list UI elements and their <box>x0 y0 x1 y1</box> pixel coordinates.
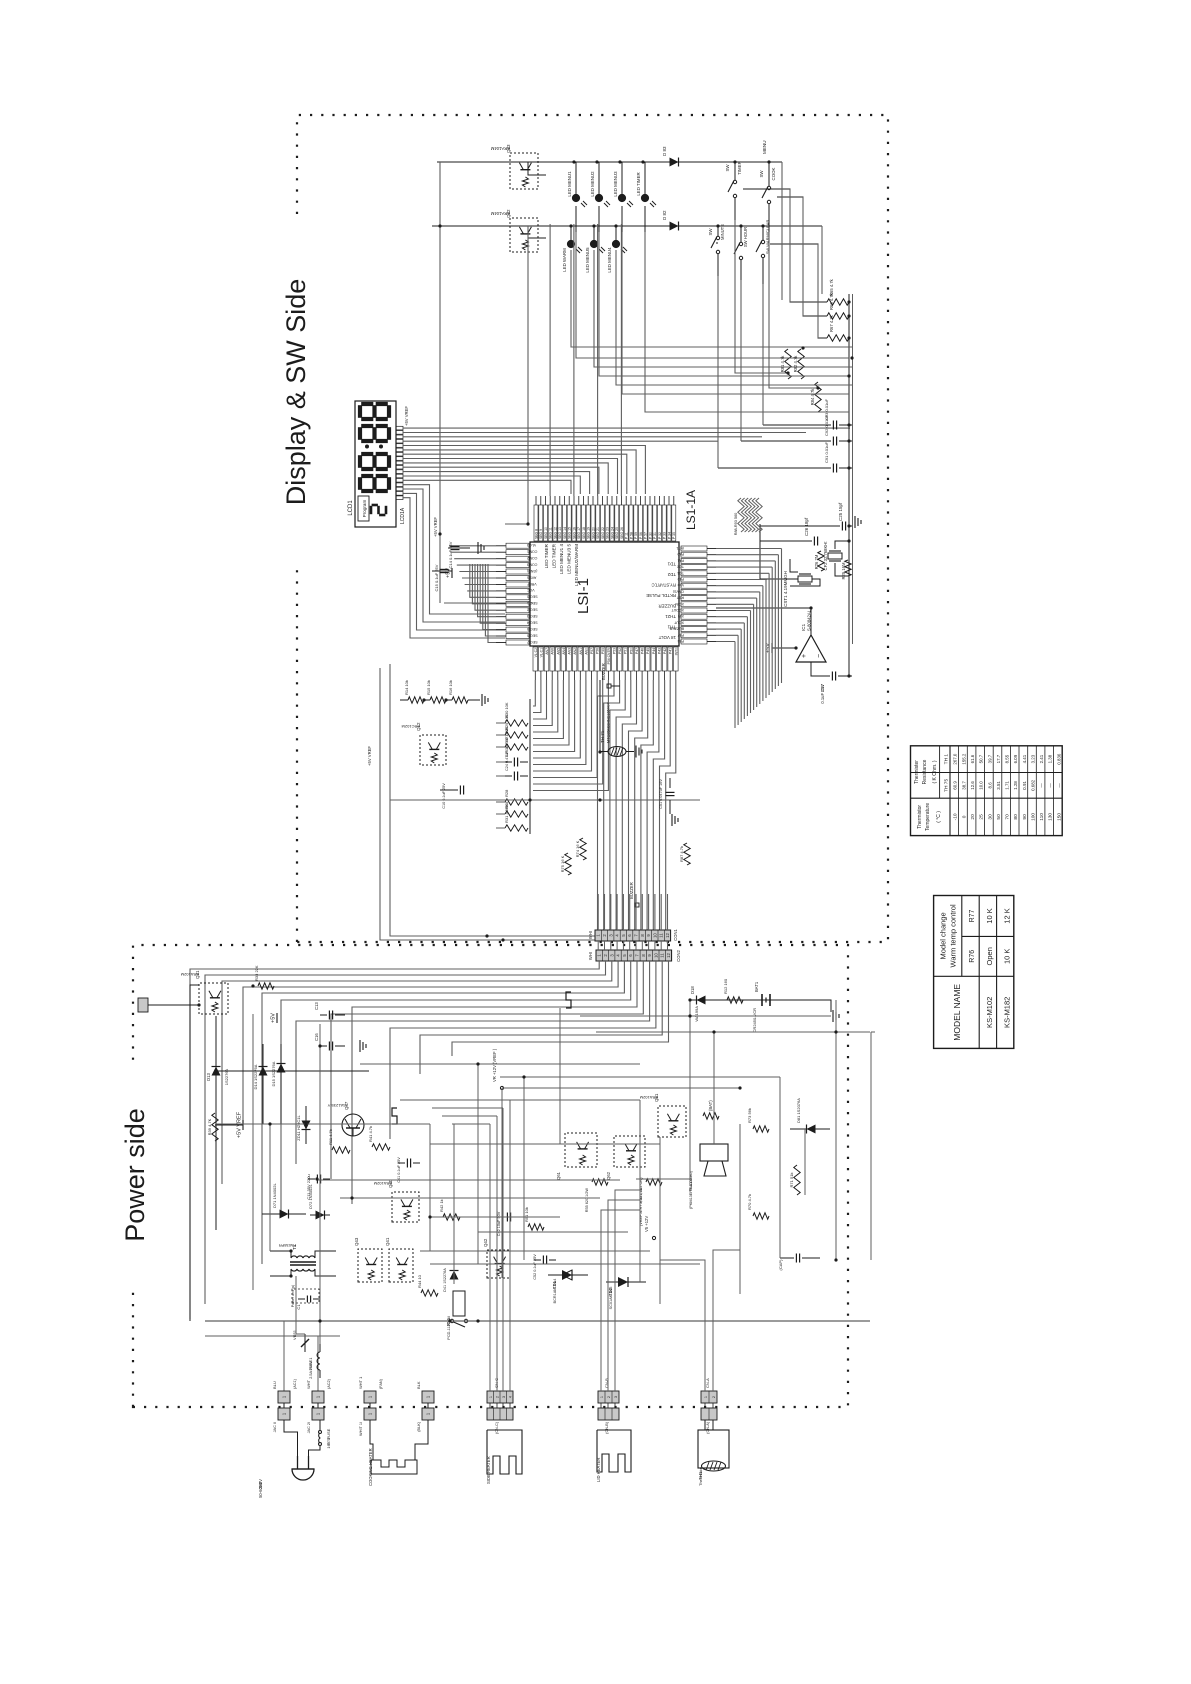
svg-text:SEG 6: SEG 6 <box>527 633 538 637</box>
capacitor C41 0.1uF 25V <box>398 1162 405 1164</box>
svg-text:SEG 20: SEG 20 <box>591 527 595 539</box>
svg-text:INT0: INT0 <box>674 648 678 655</box>
svg-text:80: 80 <box>1013 814 1019 820</box>
svg-text:TH 71: TH 71 <box>600 730 605 743</box>
LCD pin header 17 pins <box>396 496 403 500</box>
arrester VR51 <box>304 1334 306 1352</box>
svg-text:+5V VREF: +5V VREF <box>367 746 372 766</box>
svg-text:AN2: AN2 <box>573 648 577 655</box>
svg-text:C1: C1 <box>296 1304 301 1310</box>
svg-text:LED TIMER: LED TIMER <box>544 543 549 568</box>
svg-text:169°C: 169°C <box>326 1437 331 1448</box>
connector WHIT 1I <box>364 1408 376 1420</box>
svg-text:SEG 18: SEG 18 <box>582 527 586 539</box>
wire CN-A to thermistor divider <box>660 1260 705 1391</box>
svg-text:TD1: TD1 <box>667 562 676 567</box>
svg-text:(BLK): (BLK) <box>417 1421 421 1431</box>
LCD small digit <box>370 506 373 514</box>
capacitor C14 0.1uF 25V <box>448 547 470 549</box>
svg-text:AN5: AN5 <box>556 648 560 655</box>
svg-text:P37: P37 <box>678 633 684 637</box>
capacitor C26 18pF <box>760 540 812 542</box>
svg-text:BUZZER: BUZZER <box>658 604 676 609</box>
svg-text:2: 2 <box>496 1396 500 1398</box>
digital transistor Q51 KRA102M battery switch <box>658 1106 686 1137</box>
capacitor C92 0.01uF <box>741 440 831 442</box>
LSI bottom pin row (P36 P37 XOUT XIN XCOUT XCIN RST CNVss) <box>681 639 707 644</box>
svg-text:KS-M182: KS-M182 <box>1002 997 1011 1028</box>
LCD digit 3 <box>358 427 362 440</box>
svg-text:WHI: WHI <box>588 952 593 960</box>
LSI right pin row (SEG8-SEG26 P11 P58-P57) <box>534 505 538 541</box>
resistor R87 4.7K <box>684 843 690 865</box>
svg-text:SEG 4: SEG 4 <box>527 621 538 625</box>
LSI top pin row (SEG7-SEG0 VCC VREF AVSS COM3-COM0 VLC3) <box>506 640 529 645</box>
capacitor C13 <box>320 1014 327 1016</box>
digital transistor Q31 KRA102M <box>199 983 228 1014</box>
svg-text:6.09: 6.09 <box>1013 754 1018 763</box>
pulse waveform symbol 2 <box>566 992 571 1008</box>
wire power rail y871 <box>870 1032 872 1260</box>
LED LED MENU5 <box>593 226 595 244</box>
svg-text:SW HOUR: SW HOUR <box>743 227 748 247</box>
svg-text:3.51: 3.51 <box>996 781 1001 790</box>
svg-text:D 83: D 83 <box>662 146 667 156</box>
svg-text:VL C2: VL C2 <box>534 648 538 657</box>
resistor R11 4.7K <box>332 1147 350 1153</box>
resistor R66 4.7k <box>827 313 849 319</box>
svg-text:SEG 5: SEG 5 <box>527 627 538 631</box>
svg-text:COM2: COM2 <box>527 556 537 560</box>
wire transformer leads <box>270 1269 291 1276</box>
svg-text:R71 51k: R71 51k <box>789 1173 794 1188</box>
svg-text:R33 22K: R33 22K <box>254 965 259 981</box>
ground power ground rail <box>832 1010 834 1022</box>
ground C51 <box>669 808 671 814</box>
svg-text:R73 56k: R73 56k <box>747 1108 752 1123</box>
svg-text:12: 12 <box>666 953 671 958</box>
svg-text:155.2: 155.2 <box>961 753 966 765</box>
svg-text:P 56: P 56 <box>639 532 643 539</box>
ground for crystal block <box>849 525 852 527</box>
switch SW COOK <box>768 162 770 186</box>
svg-text:SEG 2: SEG 2 <box>527 608 538 612</box>
svg-text:P46: P46 <box>641 648 645 654</box>
LCD digit 2 <box>358 455 362 468</box>
LED LED MENU3 <box>621 162 623 198</box>
LED LED WARM <box>570 226 572 244</box>
svg-text:(CAP): (CAP) <box>778 1259 783 1271</box>
svg-text:C13: C13 <box>314 1002 319 1010</box>
svg-text:25: 25 <box>979 814 985 820</box>
svg-text:R14 10k: R14 10k <box>404 680 409 695</box>
digital transistor Q43 KRA102M <box>358 1249 382 1282</box>
svg-text:Temperature: Temperature <box>925 803 931 831</box>
resistor R51 10K <box>528 1224 544 1230</box>
resistor R81 4.7k <box>785 349 791 379</box>
svg-text:Warm temp control: Warm temp control <box>949 904 958 967</box>
svg-text:0.1uF 25V: 0.1uF 25V <box>820 684 825 704</box>
svg-text:SEG 26: SEG 26 <box>620 527 624 539</box>
svg-text:P 32: P 32 <box>658 532 662 539</box>
svg-text:4.41: 4.41 <box>1022 754 1027 763</box>
transistor Q77 2SA1235-Y <box>342 1114 364 1136</box>
resistor R6R <box>505 811 528 817</box>
wire +5V rail above crystal <box>759 524 761 579</box>
svg-text:130: 130 <box>1048 813 1054 821</box>
capacitor CAP power <box>780 1257 794 1259</box>
capacitor C25 0.47uF 16V <box>505 761 512 763</box>
svg-text:Open: Open <box>985 947 994 965</box>
diode D83 <box>670 158 679 167</box>
svg-text:P45: P45 <box>646 648 650 654</box>
svg-text:267.0: 267.0 <box>953 753 958 765</box>
svg-text:(FAN): (FAN) <box>379 1378 383 1389</box>
svg-text:3.23: 3.23 <box>1030 754 1035 763</box>
svg-text:+: + <box>801 654 808 658</box>
svg-text:( K Ohm. ): ( K Ohm. ) <box>932 760 938 783</box>
thyristor TD2 SC01AM A45 <box>606 1281 646 1283</box>
svg-text:TH 1: TH 1 <box>944 754 950 765</box>
svg-text:LED MENU2/WARM: LED MENU2/WARM <box>574 544 579 586</box>
thyristor TD1 BCR1AM-8 <box>548 1274 588 1276</box>
svg-text:SEG 7: SEG 7 <box>527 640 538 644</box>
diode D13 1S2276A <box>215 1016 217 1230</box>
svg-text:R70 4.7k: R70 4.7k <box>747 1194 752 1210</box>
svg-text:38.7: 38.7 <box>961 781 966 790</box>
svg-text:CNVss: CNVss <box>673 589 684 593</box>
resistor R65 4.7k <box>827 301 849 303</box>
wire power heavy mains vertical <box>205 1320 870 1322</box>
svg-text:P 11: P 11 <box>625 532 629 539</box>
wire battery net to Q51 <box>689 1000 691 1016</box>
svg-text:R44 10: R44 10 <box>417 1274 422 1288</box>
connector CON1 12-pin <box>595 930 671 941</box>
connector BLK <box>422 1391 434 1403</box>
relay RY1 PCD-112D1M <box>453 1291 465 1316</box>
wire bus SW nets to capacitor columns <box>717 276 719 468</box>
wire AC connector risers <box>283 1321 285 1391</box>
wire switch pulldown network <box>743 189 827 302</box>
svg-text:CR2450-VCR: CR2450-VCR <box>752 1008 757 1033</box>
power +5V left of LSI <box>451 568 453 578</box>
resistor R29 10K <box>505 732 528 738</box>
svg-text:LS1-1A: LS1-1A <box>684 490 698 530</box>
svg-text:P 58: P 58 <box>629 532 633 539</box>
svg-text:11: 11 <box>660 953 665 958</box>
resistor R67 4.7k <box>827 335 849 341</box>
LCD digit 4 <box>358 405 362 418</box>
svg-text:Power side: Power side <box>120 1108 150 1242</box>
svg-text:—: — <box>1048 783 1053 788</box>
wire power section top rail y190 <box>190 985 199 1321</box>
svg-text:R75 16 K: R75 16 K <box>560 855 565 872</box>
svg-text:3: 3 <box>614 1396 618 1398</box>
LCD digit 1 <box>358 477 362 490</box>
svg-text:AN6: AN6 <box>551 648 555 655</box>
wire TH71 feed <box>600 680 608 752</box>
svg-text:SEG 0: SEG 0 <box>527 595 538 599</box>
diode D71 1N4002L <box>262 1213 306 1215</box>
power +5V to op-amp <box>771 643 773 653</box>
resistor R74 16K <box>580 838 586 860</box>
svg-text:VR +12V (VREF ): VR +12V (VREF ) <box>492 1048 497 1082</box>
svg-text:P43: P43 <box>657 648 661 654</box>
wire ladder bottom bus <box>529 699 531 834</box>
wire LCD segment bus fanout <box>403 498 505 638</box>
svg-text:KRA102M: KRA102M <box>374 1181 392 1186</box>
svg-text:P 59: P 59 <box>634 532 638 539</box>
svg-text:C15 0.1uF 25V: C15 0.1uF 25V <box>434 564 439 591</box>
wire rail A lower extension <box>781 162 783 300</box>
svg-text:Q61: Q61 <box>556 1171 561 1180</box>
svg-text:IC1: IC1 <box>801 623 806 631</box>
svg-text:KRA104M: KRA104M <box>490 146 510 151</box>
svg-text:Power unit (p): Power unit (p) <box>291 1285 295 1307</box>
diode D72 1N4002L <box>310 1214 330 1216</box>
diode D14 1S2276A <box>262 1044 264 1124</box>
svg-text:1.71: 1.71 <box>1005 781 1010 790</box>
svg-text:SEG 12: SEG 12 <box>553 527 557 539</box>
svg-text:LED TIMER: LED TIMER <box>636 172 641 195</box>
svg-text:R67 4.7k: R67 4.7k <box>829 314 834 332</box>
svg-text:Thermistor: Thermistor <box>698 1466 703 1486</box>
svg-text:BLK: BLK <box>416 1381 421 1389</box>
wire AVSS net crossing chip <box>444 602 533 604</box>
capacitor C42 10uF 50V <box>498 1216 505 1218</box>
svg-text:MENU: MENU <box>762 140 767 154</box>
resistor R31 4.99K <box>505 825 528 831</box>
wire CON1-CON2 links <box>597 941 599 950</box>
svg-text:MODEL NAME: MODEL NAME <box>952 984 962 1041</box>
svg-text:Display & SW Side: Display & SW Side <box>281 279 311 506</box>
connector CN-A mate <box>701 1408 717 1420</box>
connector (BLK) <box>422 1408 434 1420</box>
svg-text:0.682: 0.682 <box>1030 779 1035 791</box>
display & SW side region dotted border <box>297 115 888 942</box>
svg-text:Q42: Q42 <box>483 1238 488 1247</box>
svg-text:C51 0.047uF 16V: C51 0.047uF 16V <box>659 779 663 809</box>
wire bus LSI upper left pins to analog section <box>533 680 535 706</box>
crystal CF2 32.768kHz <box>829 560 841 562</box>
wire analog long rail <box>390 799 700 801</box>
svg-text:WHT: WHT <box>306 1379 311 1389</box>
zener diode ZD11 HZ6C1L <box>305 1106 307 1144</box>
svg-text:LED MENU2: LED MENU2 <box>590 171 595 197</box>
resistor R70 4.7K <box>753 1213 769 1219</box>
svg-text:R82 4.7k: R82 4.7k <box>793 355 798 373</box>
resistor R12 160 <box>727 997 743 1003</box>
svg-text:-10: -10 <box>953 813 959 820</box>
resistor R25 16M <box>845 560 851 576</box>
svg-text:COM3: COM3 <box>527 562 537 566</box>
svg-text:BCR1AM-8 A4: BCR1AM-8 A4 <box>553 1279 557 1304</box>
svg-text:PA038PR: PA038PR <box>279 1243 296 1248</box>
capacitor C25 15pF <box>760 525 840 527</box>
wire buzzer drive nets <box>713 1032 715 1144</box>
svg-text:R81 4.7k: R81 4.7k <box>780 355 785 373</box>
svg-text:R25 16M: R25 16M <box>841 562 846 580</box>
svg-text:8.6: 8.6 <box>987 782 992 789</box>
svg-text:TH21: TH21 <box>665 614 676 619</box>
capacitor C93 0.01uF <box>763 424 831 426</box>
thermal fuse T-FUSE 169C <box>319 1443 322 1446</box>
svg-text:P44: P44 <box>652 648 656 654</box>
connector CN-C mate <box>487 1408 513 1420</box>
wire bus LED/SW staircase down to bias network <box>576 232 849 358</box>
svg-text:CN-A: CN-A <box>705 1378 710 1388</box>
resistor R26 2M <box>818 551 824 571</box>
connector BLU (AC1) <box>278 1391 290 1403</box>
resistor R73 56K <box>753 1126 769 1132</box>
svg-text:18 VOLT: 18 VOLT <box>658 635 676 640</box>
svg-text:10 K: 10 K <box>1002 949 1011 964</box>
wire plug to AC connectors <box>284 1420 298 1456</box>
connector WHT 1 (FAN) <box>364 1391 376 1403</box>
svg-text:(AC1): (AC1) <box>293 1378 297 1389</box>
switch SW TIMER <box>734 162 736 180</box>
connector WHT (AC2) <box>312 1391 324 1403</box>
resistor ladder R30 10K <box>505 720 528 726</box>
svg-text:D 82: D 82 <box>662 210 667 220</box>
svg-text:SEG 17: SEG 17 <box>577 527 581 539</box>
svg-text:LCD1: LCD1 <box>348 500 354 516</box>
svg-text:AN0: AN0 <box>584 648 588 655</box>
svg-text:JAC II: JAC II <box>273 1422 277 1432</box>
svg-text:0: 0 <box>961 815 967 818</box>
svg-text:KRA102M: KRA102M <box>181 972 199 977</box>
svg-text:SW: SW <box>708 228 713 236</box>
resistor R39 4.7K <box>212 1113 218 1141</box>
svg-text:(CN-B): (CN-B) <box>605 1421 609 1434</box>
diode D82 <box>670 222 679 231</box>
svg-text:10: 10 <box>653 953 658 958</box>
svg-text:MINUTE: MINUTE <box>720 224 725 240</box>
svg-text:Resistance: Resistance <box>922 759 928 784</box>
capacitor C91 0.01uF <box>718 467 831 469</box>
svg-text:P51: P51 <box>624 648 628 654</box>
wire resonator legs <box>790 579 820 586</box>
svg-text:INT1: INT1 <box>676 546 684 550</box>
svg-text:JAC 2I: JAC 2I <box>307 1422 311 1433</box>
wire battery to ground rail <box>770 1000 831 1012</box>
wire power vertical rail x668 <box>580 1015 831 1017</box>
svg-text:(AC2): (AC2) <box>327 1378 331 1389</box>
svg-text:R41 4.7k: R41 4.7k <box>368 1126 373 1142</box>
svg-text:VL C1: VL C1 <box>539 648 543 657</box>
svg-text:SEG 23: SEG 23 <box>606 527 610 539</box>
svg-text:100: 100 <box>1030 813 1036 821</box>
svg-text:SEG 21: SEG 21 <box>596 527 600 539</box>
LCD colon <box>365 445 369 449</box>
svg-text:D72 1N4002L: D72 1N4002L <box>308 1184 313 1209</box>
svg-text:XIN: XIN <box>678 614 684 618</box>
wire backup battery column <box>690 999 790 1001</box>
svg-text:R55 620 1/2W: R55 620 1/2W <box>585 1188 589 1213</box>
wire Q63 to rail A <box>440 161 546 163</box>
capacitor C16 <box>320 1045 327 1047</box>
svg-text:C42 10uF 50V: C42 10uF 50V <box>497 1211 501 1236</box>
svg-text:12: 12 <box>665 933 670 938</box>
svg-text:SEG 16: SEG 16 <box>572 527 576 539</box>
svg-text:0.91: 0.91 <box>1022 781 1027 790</box>
svg-text:RKTDL PULSE: RKTDL PULSE <box>646 593 676 598</box>
svg-text:KRC102M: KRC102M <box>402 724 420 729</box>
thermistor TH1 sensor <box>698 1430 729 1468</box>
svg-text:1: 1 <box>489 1396 493 1398</box>
svg-text:R76: R76 <box>969 950 976 963</box>
diode D15 1S2276A <box>280 1044 282 1124</box>
wire Q31 emitter rail <box>252 1014 254 1290</box>
svg-text:SW: SW <box>725 164 730 172</box>
svg-text:110: 110 <box>1039 813 1045 821</box>
svg-text:1: 1 <box>704 1396 708 1398</box>
wire CN-C to relay/triac block <box>489 1124 491 1391</box>
svg-text:60.9: 60.9 <box>953 781 958 790</box>
svg-text:D15 1S2276A: D15 1S2276A <box>271 1061 276 1086</box>
svg-text:17.7: 17.7 <box>996 754 1001 763</box>
svg-text:1.28: 1.28 <box>1013 781 1018 790</box>
svg-text:D41 1S2276A: D41 1S2276A <box>443 1268 447 1292</box>
resistor R27 10K <box>505 744 528 750</box>
svg-text:BAT1: BAT1 <box>754 981 759 992</box>
svg-text:SEG 10: SEG 10 <box>544 527 548 539</box>
svg-text:61.6: 61.6 <box>970 754 975 763</box>
wire WHT link <box>317 1403 319 1408</box>
svg-text:TIMER: TIMER <box>737 161 742 175</box>
wire CON1 approach nets from analog section <box>390 664 595 936</box>
svg-text:C52 0.1uF 25V: C52 0.1uF 25V <box>533 1254 537 1280</box>
svg-text:P50: P50 <box>629 648 633 654</box>
svg-text:P 35: P 35 <box>672 532 676 539</box>
svg-text:R42 1k: R42 1k <box>439 1199 444 1212</box>
digital transistor Q40 KRA102M <box>392 1192 419 1222</box>
svg-text:AVSS: AVSS <box>526 575 536 579</box>
svg-text:LID HEATER: LID HEATER <box>596 1458 601 1482</box>
svg-text:SEG 11: SEG 11 <box>549 527 553 539</box>
label VR +12V note <box>500 1086 503 1089</box>
wire TH1 to CN-A <box>704 1420 706 1430</box>
wire power mains branch 2 <box>205 1335 340 1337</box>
resistors R14 R15 R16 10K column <box>408 697 424 703</box>
wire power vertical rail x652 <box>596 1031 870 1033</box>
wire ladder top connections <box>496 722 505 724</box>
digital transistor Q41 KRC102M pair <box>389 1249 413 1282</box>
svg-text:8.55: 8.55 <box>1005 754 1010 763</box>
ground near C14 <box>477 542 479 554</box>
svg-text:39.7: 39.7 <box>987 754 992 763</box>
wire CON2 fanout into power side <box>190 961 599 1319</box>
power +5V power side <box>276 1013 278 1023</box>
svg-text:BUZZER: BUZZER <box>601 663 606 680</box>
title Power side <box>120 1064 148 1284</box>
svg-text:WHI: WHI <box>588 931 593 939</box>
svg-text:20: 20 <box>970 814 976 820</box>
diode D41 1S2276A <box>453 1266 455 1284</box>
svg-text:R88-R93 560: R88-R93 560 <box>734 513 738 536</box>
wire bus LSI top pins up to LCD area <box>488 564 496 643</box>
svg-text:WHIT 1I: WHIT 1I <box>359 1422 363 1436</box>
svg-text:Q43: Q43 <box>354 1237 359 1246</box>
svg-text:R15 10k: R15 10k <box>426 680 431 695</box>
digital transistor Q62 KRA104M <box>510 218 538 252</box>
diode D81 1S2076A <box>790 1128 830 1130</box>
svg-text:P52: P52 <box>618 648 622 654</box>
svg-text:LED MENU3: LED MENU3 <box>613 171 618 197</box>
svg-text:C16: C16 <box>314 1033 319 1041</box>
svg-text:LCD1A: LCD1A <box>400 507 406 524</box>
wire LED supply rail A <box>440 161 782 163</box>
